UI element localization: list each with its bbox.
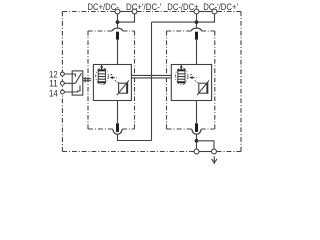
protection module 2 boundary (dash-dot box) [167, 31, 215, 129]
wire T1 drop [117, 14, 119, 28]
wire module1 earth path [118, 134, 152, 140]
terminal DC-'/DC+' [212, 9, 217, 14]
terminal DC-/DC+ [194, 9, 199, 14]
wire midpoint riser x=151 [151, 22, 153, 140]
wire terminal 14 [65, 85, 80, 92]
enclosure bottom boundary [62, 151, 241, 153]
wire inter-module bus lower [131, 77, 171, 79]
remote contact link (double line) [83, 78, 91, 80]
wire module1 internal top [117, 40, 119, 65]
varistor module2 [197, 81, 209, 96]
thermal disconnector stub module1 [101, 65, 103, 70]
wire terminal bus DC+ pair [120, 11, 132, 13]
thermal monitoring circle module1 (dash-dot ellipse) [96, 68, 109, 85]
plug-in contact socket module2 bottom [192, 129, 202, 134]
terminal DC+'/DC-' [132, 9, 137, 14]
wire module2 internal top [196, 40, 198, 65]
wire earth branch to second terminal [197, 141, 215, 149]
junction node DC- [195, 20, 199, 24]
remote contact link pins [84, 77, 86, 83]
thermal disconnector trip arrow module1 [100, 66, 103, 69]
protection module 1 boundary (dash-dot box) [88, 31, 135, 129]
actuation arrow module1 [110, 76, 114, 79]
wire module1 internal bottom [117, 101, 119, 123]
plug-in contact socket module1 top [112, 28, 123, 31]
varistor module1 [117, 81, 129, 96]
disconnect device (ladder) module1 [98, 70, 105, 83]
wire T4 drop [152, 14, 215, 22]
terminal DC+/DC- [115, 9, 120, 14]
actuation arrow module2 [189, 76, 193, 79]
SPD unit 1 outline [93, 65, 131, 101]
terminal earth 2 [212, 149, 217, 154]
terminal 14 circle [60, 90, 64, 94]
thermal disconnector stub module2 [180, 65, 182, 70]
thermal disconnector trip arrow module2 [180, 66, 183, 69]
terminal 12 circle [60, 72, 64, 76]
terminal 11 circle [60, 81, 64, 85]
svg-text:11: 11 [49, 79, 58, 89]
wire T3 drop [196, 14, 198, 28]
wire T2 drop [118, 14, 135, 22]
plug-in contact socket module1 bottom [113, 129, 123, 134]
enclosure right boundary [240, 12, 242, 152]
disconnect device (ladder) module2 [178, 70, 185, 83]
svg-text:14: 14 [49, 89, 58, 99]
plug-in contact pin module2 bottom [195, 123, 198, 132]
changeover contact blade [75, 73, 81, 83]
wire inter-module bus upper [131, 74, 171, 76]
wire terminal 12 [65, 74, 76, 77]
ground symbol [212, 156, 218, 164]
SPD unit 2 outline [171, 65, 211, 101]
junction node earth [195, 139, 199, 143]
actuation dashed link module2 [193, 77, 198, 79]
junction node DC+ [116, 20, 120, 24]
enclosure left boundary [61, 12, 63, 152]
plug-in contact pin module2 top [195, 32, 198, 40]
enclosure top boundary (dash-dot) [62, 11, 241, 13]
plug-in contact pin module1 bottom [116, 123, 119, 132]
plug-in contact pin module1 top [116, 32, 119, 40]
wire earth bus pair [199, 151, 211, 153]
wire terminal 11 [65, 82, 76, 84]
terminal earth 1 [194, 149, 199, 154]
remote signalling contact box [72, 71, 83, 95]
wire module2 earth drop [196, 134, 198, 149]
thermal monitoring circle module2 (dash-dot ellipse) [175, 68, 188, 85]
wire module2 internal bottom [196, 101, 198, 123]
wire terminal bus DC- pair [199, 11, 212, 13]
plug-in contact socket module2 top [191, 28, 202, 31]
actuation dashed link module1 [113, 77, 118, 79]
